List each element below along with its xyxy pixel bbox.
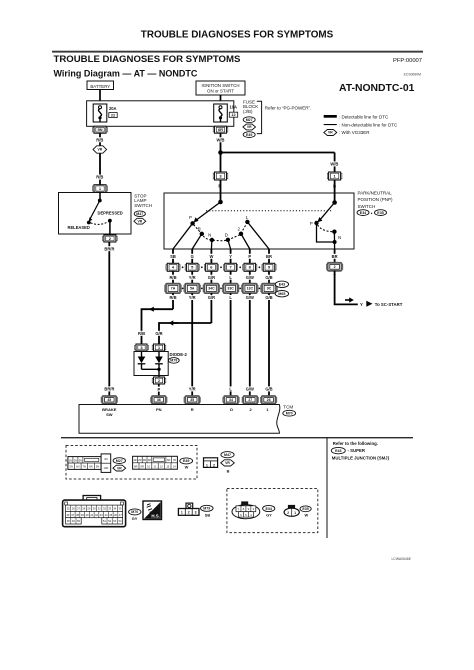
svg-text:Refer to the following.: Refer to the following. <box>333 441 378 446</box>
svg-text:G/B: G/B <box>265 275 272 280</box>
svg-text:9C: 9C <box>267 287 272 291</box>
fuse block J/B box <box>87 101 234 127</box>
connector 3 PNP <box>213 172 228 180</box>
svg-text:45: 45 <box>107 398 111 402</box>
svg-text:R/B: R/B <box>169 275 176 280</box>
svg-text:8R: 8R <box>134 464 137 468</box>
wire B into PNP left <box>220 180 222 193</box>
svg-text:VR: VR <box>328 131 333 135</box>
terminal labels SB G W Y P BR <box>167 254 275 259</box>
svg-text:49: 49 <box>72 519 75 523</box>
label G/R diode <box>153 331 165 336</box>
svg-text:1: 1 <box>181 510 183 514</box>
label Y To SC-START <box>360 301 403 307</box>
svg-text:W/B: W/B <box>330 162 338 167</box>
svg-text:E35: E35 <box>302 507 308 511</box>
svg-text:2: 2 <box>287 511 289 515</box>
svg-text:PFP:00007: PFP:00007 <box>393 58 422 64</box>
svg-text:W: W <box>304 512 308 517</box>
svg-text:28: 28 <box>82 507 85 511</box>
svg-text:2: 2 <box>188 510 190 514</box>
svg-text:7R: 7R <box>173 458 176 462</box>
svg-text:45: 45 <box>109 513 112 517</box>
wire P to TCM <box>158 384 160 396</box>
connector M27 oval <box>243 117 255 123</box>
color labels row 1 <box>167 275 276 280</box>
label G/W TCM <box>243 386 257 391</box>
svg-text:P: P <box>310 221 313 226</box>
wire W/B 6R down <box>220 133 222 172</box>
TCM box <box>79 405 280 434</box>
svg-text:6N: 6N <box>76 465 79 469</box>
label R/B 2 <box>94 175 106 180</box>
svg-text:47: 47 <box>119 513 122 517</box>
wire W/B horizontal link <box>221 152 335 154</box>
svg-text:E49: E49 <box>183 459 189 463</box>
PNP switch box <box>164 193 354 249</box>
diode D1 <box>138 351 146 369</box>
svg-text:9N: 9N <box>96 465 99 469</box>
svg-text:G/B: G/B <box>265 387 272 392</box>
connector face E49 grid <box>133 456 178 469</box>
label R/B <box>94 137 106 142</box>
wire none: sheet code <box>392 557 412 561</box>
svg-text:P: P <box>158 387 161 392</box>
stop lamp switch label <box>134 193 152 208</box>
label G/B TCM <box>262 386 276 391</box>
svg-text:7A: 7A <box>171 287 176 291</box>
arrow Y direction <box>345 297 354 302</box>
arrow G/R <box>169 320 179 325</box>
svg-text:27: 27 <box>77 507 80 511</box>
label R/B diode <box>135 331 147 336</box>
connector 34 TCM <box>223 396 239 404</box>
svg-text:ON or START: ON or START <box>207 89 234 94</box>
connector VR flag <box>243 124 256 130</box>
svg-text:Y/R: Y/R <box>189 387 196 392</box>
svg-text:M70: M70 <box>131 510 138 514</box>
svg-text:2N: 2N <box>74 458 77 462</box>
svg-text:40: 40 <box>86 513 89 517</box>
stop lamp switch contacts <box>68 193 123 236</box>
svg-text:N: N <box>208 233 211 238</box>
wire W/B right down <box>334 153 336 173</box>
svg-text:Refer to “PG-POWER”.: Refer to “PG-POWER”. <box>265 106 312 111</box>
svg-text:Y: Y <box>229 254 232 259</box>
fuse 10A 12 <box>214 104 238 122</box>
svg-text:26: 26 <box>267 398 271 402</box>
svg-text:27: 27 <box>248 398 252 402</box>
connector M65 oval <box>275 291 288 297</box>
svg-text:E34: E34 <box>265 507 271 511</box>
svg-text:R/B: R/B <box>96 175 103 180</box>
svg-text:1N: 1N <box>69 458 72 462</box>
svg-text:LCWA0646E: LCWA0646E <box>392 557 412 561</box>
svg-text:P: P <box>248 254 251 259</box>
connector 1 stop lamp <box>93 185 108 193</box>
wire ignition to fuse <box>220 95 222 106</box>
svg-text:VR: VR <box>137 219 142 223</box>
fuse block label <box>243 99 258 114</box>
connector face M27 oval label <box>113 458 125 464</box>
diode box <box>134 352 168 376</box>
svg-text:5N: 5N <box>97 127 102 132</box>
wires PNP terminals down <box>173 249 269 263</box>
svg-text:GY: GY <box>266 512 272 517</box>
svg-text:Y/R: Y/R <box>189 275 196 280</box>
svg-text:13C: 13C <box>247 287 254 291</box>
svg-text:VR: VR <box>225 461 230 465</box>
dashed box fuse block faces <box>66 446 197 480</box>
svg-text:2: 2 <box>213 463 215 467</box>
svg-text:AT-NONDTC-01: AT-NONDTC-01 <box>339 83 415 94</box>
svg-text:M47: M47 <box>136 212 143 216</box>
svg-text:43: 43 <box>100 513 103 517</box>
wire none: page header <box>141 30 334 41</box>
label L TCM <box>227 386 234 391</box>
svg-text:30: 30 <box>93 507 96 511</box>
svg-text:4R: 4R <box>148 458 151 462</box>
connector face E34 oval label <box>263 505 275 517</box>
PNP switch label <box>358 190 394 209</box>
label B right <box>332 183 338 188</box>
svg-text:TCM: TCM <box>283 404 293 409</box>
refer box <box>327 438 390 538</box>
svg-text:9R: 9R <box>141 464 144 468</box>
svg-text:W: W <box>185 464 189 469</box>
svg-text:RELEASED: RELEASED <box>68 225 90 230</box>
svg-text:BATTERY: BATTERY <box>90 84 110 89</box>
svg-text:SB: SB <box>170 254 176 259</box>
wire R/B bend to diode <box>142 309 174 344</box>
wire BR/R to TCM <box>108 242 110 396</box>
svg-text:B: B <box>227 468 230 473</box>
junction W/B <box>218 150 223 155</box>
svg-text:POSITION (PNP): POSITION (PNP) <box>358 197 394 202</box>
svg-text:54: 54 <box>119 519 122 523</box>
svg-text:3R: 3R <box>143 458 146 462</box>
connector 26 TCM <box>260 396 276 404</box>
VR flag on wire <box>93 146 107 153</box>
svg-text:W: W <box>209 254 213 259</box>
label Y <box>331 273 337 278</box>
svg-text:35: 35 <box>190 398 194 402</box>
svg-text:G: G <box>191 254 194 259</box>
svg-text:SWITCH: SWITCH <box>134 203 152 208</box>
svg-text:36: 36 <box>157 398 161 402</box>
label BR <box>329 254 341 259</box>
svg-text:TROUBLE DIAGNOSES FOR SYMPTOMS: TROUBLE DIAGNOSES FOR SYMPTOMS <box>54 54 242 65</box>
connector 36 TCM <box>151 396 167 404</box>
svg-text:25: 25 <box>67 507 70 511</box>
svg-text:5A: 5A <box>190 287 195 291</box>
svg-text:4N: 4N <box>104 457 108 461</box>
svg-text:37: 37 <box>71 513 74 517</box>
svg-text:2R: 2R <box>138 458 141 462</box>
svg-text:BR: BR <box>266 254 272 259</box>
bracket refer PG-POWER <box>257 101 312 133</box>
connector face M79 oval label <box>201 505 214 517</box>
svg-text:34: 34 <box>229 398 233 402</box>
wire battery to fuse <box>99 90 101 107</box>
svg-text:36: 36 <box>67 513 70 517</box>
svg-text:M47: M47 <box>224 453 231 457</box>
svg-text:R/B: R/B <box>169 295 176 300</box>
wire none: header rule <box>52 51 423 53</box>
svg-text:10N: 10N <box>104 466 109 470</box>
TCM pin names <box>102 407 269 417</box>
PNP mechanical link dotted <box>206 210 333 212</box>
svg-text:ECS0690M: ECS0690M <box>404 72 422 76</box>
svg-text:34C: 34C <box>208 287 215 291</box>
svg-text:G/R: G/R <box>208 295 215 300</box>
svg-text:- SUPER: - SUPER <box>348 448 366 453</box>
label B left <box>217 183 223 188</box>
TCM label <box>283 404 293 409</box>
junction diode <box>157 368 160 371</box>
connector E49 oval <box>243 132 255 138</box>
svg-text:7N: 7N <box>83 465 86 469</box>
svg-text:10A: 10A <box>230 105 238 110</box>
wire G/R bend to diode <box>159 323 211 344</box>
connector 2 stop lamp <box>103 235 118 242</box>
svg-text:BR: BR <box>332 254 338 259</box>
label BR/R <box>103 246 117 251</box>
svg-text:G/B: G/B <box>265 295 272 300</box>
connector M79 oval <box>168 358 179 364</box>
connector E43 oval <box>275 281 288 287</box>
svg-text:12: 12 <box>231 113 235 117</box>
battery <box>87 81 114 90</box>
svg-text:SB: SB <box>205 512 211 517</box>
connector 5N <box>93 126 108 133</box>
connector 2 SMJ gray <box>326 263 342 271</box>
svg-text:1: 1 <box>206 463 208 467</box>
wires between connector rows <box>173 271 269 283</box>
svg-text:E35: E35 <box>377 211 383 215</box>
connector face E34 <box>232 501 260 518</box>
svg-text:52: 52 <box>108 519 111 523</box>
connector row 4-9 PNP <box>166 263 276 271</box>
svg-text:SWITCH: SWITCH <box>358 204 376 209</box>
svg-text:VR: VR <box>247 125 252 129</box>
svg-text:VR: VR <box>97 148 102 152</box>
svg-text:3: 3 <box>195 510 197 514</box>
svg-text:48: 48 <box>67 519 70 523</box>
dashed box PNP faces <box>227 489 318 533</box>
svg-text:35: 35 <box>119 507 122 511</box>
svg-text:SW: SW <box>106 412 113 417</box>
connector face M27 grid <box>68 454 111 473</box>
connector face M70 oval label <box>129 509 141 521</box>
svg-text:38: 38 <box>76 513 79 517</box>
connector face VR flag <box>113 465 126 471</box>
label P <box>156 387 163 392</box>
svg-text:32: 32 <box>103 507 106 511</box>
svg-text:IGNITION SWITCH: IGNITION SWITCH <box>201 83 239 88</box>
svg-text:42: 42 <box>95 513 98 517</box>
connector face TCM grid <box>63 496 126 527</box>
PNP switch right assembly <box>310 193 342 249</box>
svg-text:8N: 8N <box>89 465 92 469</box>
svg-text:1: 1 <box>294 511 296 515</box>
svg-text:Y: Y <box>360 302 363 307</box>
wire Y to SC-START <box>335 271 358 305</box>
connector face M47 oval label <box>221 452 234 458</box>
svg-text:To SC-START: To SC-START <box>375 302 403 307</box>
wires below SMJ row <box>173 293 269 396</box>
arrow R/B <box>149 307 159 312</box>
svg-text:33: 33 <box>108 507 111 511</box>
svg-text:PN: PN <box>156 407 162 412</box>
svg-text:Y/R: Y/R <box>189 295 196 300</box>
connector face E49 oval label <box>180 458 193 470</box>
connector face M79 3-pin <box>178 503 199 515</box>
svg-text:G/R: G/R <box>155 331 162 336</box>
connector 1 diode <box>152 344 166 351</box>
legend VR flag <box>324 130 370 136</box>
svg-text:E43: E43 <box>335 449 341 453</box>
svg-text:41: 41 <box>90 513 93 517</box>
svg-text:5N: 5N <box>70 465 73 469</box>
svg-text:GY: GY <box>132 516 138 521</box>
connector 1 PNP <box>327 172 342 180</box>
label DIODE-2 <box>170 352 188 357</box>
wire diode join <box>142 368 160 370</box>
svg-text:H.S.: H.S. <box>151 513 160 518</box>
svg-text:1R: 1R <box>133 458 136 462</box>
svg-text:: Non-detectable line for DTC: : Non-detectable line for DTC <box>339 123 398 128</box>
svg-text:TROUBLE DIAGNOSES FOR SYMPTOMS: TROUBLE DIAGNOSES FOR SYMPTOMS <box>141 30 334 41</box>
svg-text:53: 53 <box>113 519 116 523</box>
svg-text:29: 29 <box>87 507 90 511</box>
icon H.S. <box>143 501 162 520</box>
svg-text:M70: M70 <box>286 411 293 415</box>
diode D2 <box>155 351 163 377</box>
connector face E35 oval label <box>300 506 311 518</box>
svg-text:M79: M79 <box>203 507 210 511</box>
svg-text:E49: E49 <box>246 133 252 137</box>
svg-text:G/W: G/W <box>246 387 254 392</box>
svg-text:Wiring Diagram — AT — NONDTC: Wiring Diagram — AT — NONDTC <box>54 68 198 78</box>
svg-text:R: R <box>191 407 194 412</box>
connector 35 TCM <box>184 396 200 404</box>
label W/B left <box>214 137 227 142</box>
svg-text:DEPRESSED: DEPRESSED <box>98 211 123 216</box>
wire R/B 5N to stop lamp <box>99 133 101 184</box>
svg-text:33C: 33C <box>227 287 234 291</box>
wire none: separator rule <box>61 437 413 438</box>
connector VR flag stop lamp <box>134 218 146 224</box>
label BR/R 2 <box>103 386 117 391</box>
svg-text:MULTIPLE JUNCTION (SMJ): MULTIPLE JUNCTION (SMJ) <box>332 456 390 461</box>
svg-text:44: 44 <box>105 513 108 517</box>
legend non-detectable line <box>324 123 398 128</box>
wire B into PNP right <box>334 180 336 193</box>
connector face M47 2-pin <box>204 458 218 468</box>
svg-text:31: 31 <box>98 507 101 511</box>
connector 45 TCM <box>101 396 117 404</box>
connector M70 oval <box>283 410 296 416</box>
svg-text:3N: 3N <box>79 458 82 462</box>
wire BR below PNP <box>334 249 336 263</box>
fuse 20A 22 <box>93 104 117 122</box>
svg-text:D: D <box>230 407 233 412</box>
connector M47 oval <box>134 211 145 217</box>
connector face M47 VR flag <box>221 460 235 466</box>
svg-text:51: 51 <box>103 519 106 523</box>
svg-text:50: 50 <box>77 519 80 523</box>
connector 2 diode <box>152 377 166 384</box>
label B M47 <box>227 468 230 473</box>
connector face E35 <box>284 505 299 516</box>
connector 27 TCM <box>242 396 258 404</box>
svg-text:6R: 6R <box>167 458 170 462</box>
svg-text:DIODE-2: DIODE-2 <box>170 352 188 357</box>
connector row SMJ <box>165 284 278 293</box>
svg-text:W/B: W/B <box>217 137 225 142</box>
connector 3 diode <box>135 344 149 351</box>
svg-text:M27: M27 <box>116 459 123 463</box>
PNP switch left assembly <box>173 193 269 249</box>
label W/B right <box>328 161 341 166</box>
svg-text:M65: M65 <box>278 292 285 296</box>
stop lamp switch box <box>59 193 132 235</box>
color labels row 2 <box>167 295 276 300</box>
legend detectable line <box>324 114 389 119</box>
svg-text:G/W: G/W <box>246 295 254 300</box>
label Y/R TCM <box>186 386 199 391</box>
svg-text:2: 2 <box>334 265 336 269</box>
svg-text:BR/R: BR/R <box>104 246 114 251</box>
svg-text:M79: M79 <box>170 359 177 363</box>
svg-text:G/R: G/R <box>208 275 215 280</box>
svg-text:6R: 6R <box>218 127 223 132</box>
svg-text:M27: M27 <box>246 118 253 122</box>
connector E34 oval label <box>357 210 369 216</box>
svg-text:E43: E43 <box>279 283 285 287</box>
svg-text:BR/R: BR/R <box>104 387 114 392</box>
svg-text:P: P <box>189 215 192 220</box>
svg-text:(J/B): (J/B) <box>243 109 253 114</box>
connector E35 oval label <box>371 210 387 216</box>
svg-text:46: 46 <box>114 513 117 517</box>
svg-text:R/B: R/B <box>96 137 103 142</box>
svg-text:: With VG33ER: : With VG33ER <box>339 130 370 135</box>
svg-text:26: 26 <box>72 507 75 511</box>
svg-text:34: 34 <box>113 507 116 511</box>
svg-text:R/B: R/B <box>138 331 145 336</box>
svg-text:PARK/NEUTRAL: PARK/NEUTRAL <box>358 190 393 195</box>
connector 6R <box>213 126 228 133</box>
svg-text:: Detectable line for DTC: : Detectable line for DTC <box>339 114 389 119</box>
svg-text:N: N <box>338 235 341 240</box>
svg-text:20A: 20A <box>109 106 117 111</box>
svg-text:E34: E34 <box>360 211 366 215</box>
svg-text:G/W: G/W <box>246 275 254 280</box>
ignition switch <box>196 81 245 95</box>
svg-text:22: 22 <box>111 114 115 118</box>
svg-text:39: 39 <box>81 513 84 517</box>
svg-text:VR: VR <box>117 466 122 470</box>
